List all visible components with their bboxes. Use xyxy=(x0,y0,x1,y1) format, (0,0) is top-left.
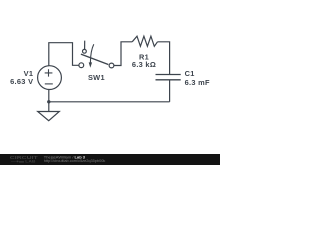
junction dot xyxy=(47,100,50,103)
wire R1 right to C1 top xyxy=(158,42,170,74)
resistor R1 zigzag xyxy=(132,36,157,46)
switch SW1 left terminal circle xyxy=(79,63,84,68)
svg-text:SW1: SW1 xyxy=(88,73,105,82)
switch SW1 throw terminal circle xyxy=(83,49,87,53)
wire bottom rail xyxy=(49,101,170,103)
wire C1 bottom lead xyxy=(169,80,171,102)
voltage source V1 xyxy=(38,66,62,90)
svg-text:6.3 kΩ: 6.3 kΩ xyxy=(132,60,156,69)
wire V1 top to switch left xyxy=(49,43,79,66)
wire switch right to R1 xyxy=(114,42,132,66)
watermark bar xyxy=(0,154,220,165)
switch SW1 actuation arrow stem xyxy=(90,44,93,63)
capacitor C1 plates xyxy=(156,75,181,80)
wire V1 bottom to ground xyxy=(48,89,50,111)
switch SW1 throw stub xyxy=(84,41,86,50)
svg-text:6.63 V: 6.63 V xyxy=(10,77,33,86)
ground xyxy=(38,112,60,121)
switch SW1 right terminal circle xyxy=(109,63,114,68)
svg-text:http://circuitlab.com/c5ze2q35: http://circuitlab.com/c5ze2q35pb00k xyxy=(44,159,106,163)
V1 plus sign xyxy=(45,69,53,76)
svg-text:6.3 mF: 6.3 mF xyxy=(185,78,210,87)
switch SW1 lever xyxy=(81,54,108,64)
svg-text:—●▬ LAB: —●▬ LAB xyxy=(11,159,36,164)
switch SW1 arrowhead xyxy=(89,62,92,67)
V1 minus sign xyxy=(45,83,53,85)
